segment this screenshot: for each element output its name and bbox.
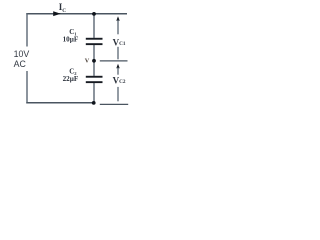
svg-text:V: V [85,57,90,64]
svg-text:10V: 10V [14,49,30,59]
svg-text:10µF: 10µF [63,35,79,43]
svg-text:22µF: 22µF [63,75,79,83]
svg-text:AC: AC [14,59,27,69]
